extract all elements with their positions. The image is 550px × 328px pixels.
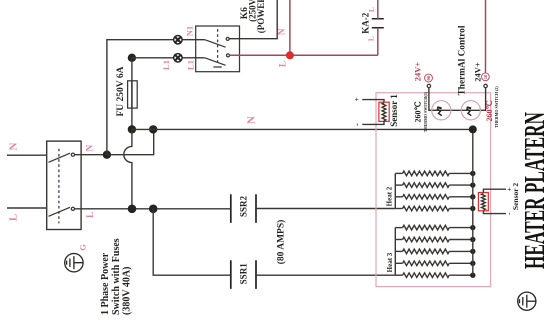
terminal circle under (06)	[427, 84, 430, 87]
resistor Heat2-1	[395, 172, 402, 174]
svg-text:L: L	[367, 36, 376, 41]
terminal (10) red circle	[482, 73, 490, 81]
wire L riser to top edge (red)	[289, 0, 291, 55]
svg-text:24V+: 24V+	[472, 62, 482, 82]
sensor 2 + lead	[483, 189, 506, 192]
svg-text:N: N	[277, 28, 287, 35]
wire N output of relay to top edge	[229, 0, 277, 39]
wire KA-2 top to edge (red)	[377, 0, 379, 19]
wire N long bus to heaters	[153, 128, 473, 130]
svg-text:L1: L1	[186, 60, 196, 70]
wire hop over N then down to L	[124, 129, 132, 208]
resistor Heat3-2	[395, 239, 402, 241]
lamp/terminal L1 (circle-X)	[174, 54, 182, 62]
relay contact bottom (L)	[205, 58, 226, 66]
svg-text:KA-2: KA-2	[361, 12, 371, 33]
svg-text:260℃: 260℃	[485, 100, 494, 121]
terminal (06) red circle	[425, 74, 433, 82]
resistor Heat2-2	[395, 184, 402, 186]
wire L output of relay (red)	[230, 54, 378, 56]
thermo switch 1 blade	[437, 109, 442, 116]
junction L (red dot)	[286, 51, 294, 59]
sensor 2 - lead	[483, 211, 506, 214]
svg-text:(80 AMPS): (80 AMPS)	[275, 220, 286, 265]
wire L1 from fuse to relay	[132, 57, 205, 59]
resistor Heat3-1	[395, 227, 402, 229]
svg-text:(380V 40A): (380V 40A)	[122, 267, 133, 315]
Heat 2 left bus	[394, 173, 396, 208]
svg-text:Heat 3: Heat 3	[386, 252, 394, 272]
lamp/terminal N1 (circle-X)	[174, 36, 182, 44]
wire 24V+ riser (red)	[485, 0, 487, 73]
wire N from switch to junction	[75, 154, 107, 156]
svg-text:FU 250V 6A: FU 250V 6A	[116, 66, 126, 116]
svg-text:24V+: 24V+	[412, 62, 422, 82]
svg-text:Sensor 2: Sensor 2	[511, 183, 520, 210]
resistor Heat2-3	[395, 196, 402, 198]
relay K6 link (dashed)	[217, 29, 219, 65]
switch S1 (1 Phase Power Switch with Fuses) box	[47, 141, 81, 229]
wire SSR1 output to Heat 3	[256, 274, 395, 276]
svg-text:ThermAl Control: ThermAl Control	[457, 25, 467, 95]
wire N riser up to relay input	[107, 40, 205, 155]
svg-text:G: G	[79, 244, 88, 250]
switch S1 pole N blade	[49, 153, 71, 162]
junction L / SSR1 branch	[149, 205, 158, 214]
fuse FU body	[128, 81, 138, 108]
resistor Heat3-4	[395, 262, 402, 264]
wire N right bus down heater rows	[472, 129, 474, 275]
switch S1 mechanical link (dashed)	[58, 149, 60, 224]
SSR1 contact plates	[231, 260, 256, 289]
wire L from switch to SSR2	[75, 208, 231, 210]
SSR2 contact plates	[231, 194, 256, 223]
junction above fuse	[128, 54, 136, 62]
svg-text:L1: L1	[161, 60, 171, 70]
wire thermo switch chain	[429, 88, 486, 111]
resistor Heat3-3	[395, 250, 402, 252]
wire L down to SSR1	[153, 209, 231, 275]
sensor 1 + lead	[362, 100, 384, 103]
svg-text:Switch with Fuses: Switch with Fuses	[111, 238, 122, 315]
svg-text:-: -	[353, 123, 362, 126]
svg-text:N: N	[246, 116, 258, 124]
thermo switch 2 blade	[466, 109, 471, 116]
wire N to long N bus	[107, 129, 154, 154]
junction L / fuse branch	[128, 205, 137, 214]
wire SSR2 output to Heat 2	[256, 208, 395, 210]
junction N at switch output	[103, 151, 111, 159]
svg-text:-: -	[504, 212, 513, 215]
junction fuse bottom	[128, 125, 136, 133]
heater platen outline box (pink)	[376, 93, 491, 287]
switch S1 pole L blade	[49, 207, 71, 216]
sensor 1 resistor zigzag	[382, 103, 386, 121]
wire KA-2 bottom (red)	[377, 28, 379, 56]
junction N bus start	[149, 125, 157, 133]
svg-text:06: 06	[426, 75, 431, 80]
Heat 3 left bus	[394, 228, 396, 276]
sensor 1 resistor box (red)	[379, 102, 389, 121]
svg-text:N: N	[86, 144, 96, 151]
svg-text:SSR1: SSR1	[238, 263, 248, 285]
sensor 2 resistor zigzag	[482, 194, 486, 210]
svg-text:10: 10	[483, 74, 488, 79]
svg-text:N1: N1	[185, 26, 195, 36]
sensor 2 resistor box (red)	[478, 193, 488, 211]
svg-text:HEATER PLATERN: HEATER PLATERN	[520, 112, 550, 269]
svg-text:L: L	[7, 214, 19, 221]
resistor Heat3-5	[395, 274, 402, 276]
svg-text:L: L	[367, 7, 376, 12]
svg-text:Sensor 1: Sensor 1	[389, 94, 399, 127]
svg-text:+: +	[352, 97, 361, 101]
svg-text:THERMO SWITCH (2): THERMO SWITCH (2)	[494, 86, 499, 128]
svg-text:260℃: 260℃	[413, 101, 422, 122]
svg-text:Heat 2: Heat 2	[385, 186, 393, 206]
svg-text:L: L	[86, 212, 96, 218]
svg-text:L: L	[279, 61, 289, 67]
relay contact top (N)	[205, 40, 226, 48]
svg-text:THERMO SWITCH(1): THERMO SWITCH(1)	[423, 91, 428, 132]
svg-text:SSR2: SSR2	[238, 195, 248, 217]
wire L input	[7, 207, 47, 209]
junction N bus top	[469, 125, 477, 133]
svg-text:N: N	[7, 142, 19, 150]
relay coil KA-2 plates	[372, 19, 384, 28]
ground G symbol below switch	[65, 254, 83, 272]
relay K6 box	[196, 26, 240, 72]
wire N input	[7, 154, 47, 156]
svg-text:(POWER: (POWER	[256, 0, 266, 33]
terminal circle under (10)	[484, 84, 487, 87]
fuse FU 250V 6A wire	[131, 58, 133, 130]
thermo switch 1 circle	[432, 101, 451, 120]
wire link between junctions	[132, 128, 153, 130]
sensor 1 - lead	[362, 121, 384, 125]
resistor Heat2-4	[395, 208, 402, 210]
thermo switch 2 circle	[461, 101, 480, 120]
ground symbol bottom right	[518, 292, 536, 310]
svg-text:1 Phase Power: 1 Phase Power	[100, 252, 111, 315]
